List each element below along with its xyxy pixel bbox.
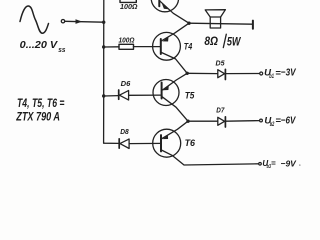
transistor T5: [153, 80, 179, 106]
source sine symbol: [20, 6, 49, 33]
T6 emitter arrow: [163, 135, 169, 139]
svg-text:100Ω: 100Ω: [119, 38, 135, 45]
svg-text:D7: D7: [216, 106, 225, 115]
input terminal: [61, 20, 64, 23]
speaker box: [210, 17, 220, 28]
label T6: [185, 138, 196, 148]
wire input: [65, 20, 104, 23]
transistor T4: [153, 32, 181, 60]
svg-text:T4, T5, T6 =: T4, T5, T6 =: [17, 98, 65, 110]
wire J1 to speaker terminal: [189, 23, 253, 24]
Q3 base bar: [158, 0, 160, 6]
label R1 100ohm: [120, 4, 138, 11]
resistor R2 100ohm: [119, 44, 134, 49]
terminal Ub3: [259, 163, 262, 166]
label D8: [120, 127, 129, 136]
diode D5: [218, 70, 225, 78]
svg-text:−3V: −3V: [281, 68, 297, 79]
transistor T6: [153, 129, 181, 157]
label Ub2 = -6V: [264, 115, 296, 128]
label D5: [216, 58, 226, 67]
node J1: [187, 22, 190, 25]
svg-text:T5: T5: [185, 91, 196, 101]
svg-text:D8: D8: [120, 127, 129, 136]
diode D8 cathode bar: [118, 139, 120, 148]
node J2: [186, 72, 189, 75]
label 0...20 Vss: [20, 39, 66, 54]
T6 emitter wire: [162, 121, 189, 139]
wire R2 to T4 base: [134, 46, 161, 48]
svg-text:D5: D5: [216, 58, 226, 67]
Q3 emitter arrow: [162, 3, 169, 9]
wire bus to D6: [104, 95, 119, 97]
terminal Ub2: [260, 119, 263, 122]
svg-text:5W: 5W: [227, 34, 242, 48]
T6 base bar: [160, 135, 162, 151]
note T4,T5,T6 = ZTX 790 A: [16, 98, 65, 124]
label 8 ohm / 5W: [204, 34, 241, 48]
node input junction: [102, 21, 105, 24]
T4 emitter arrow: [162, 37, 168, 42]
svg-text:=: =: [271, 159, 276, 168]
wire bus to R2: [104, 46, 119, 48]
svg-text:8Ω: 8Ω: [204, 34, 218, 48]
label Ub3 = -9V: [262, 158, 300, 170]
diode D7: [218, 117, 225, 125]
terminal Ub1: [260, 72, 263, 75]
slash in 8ohm/5W label: [223, 34, 226, 47]
svg-text:0...20 V: 0...20 V: [20, 39, 59, 51]
T4 emitter wire: [161, 23, 189, 41]
wire J3 to D7: [188, 120, 218, 122]
diode D6 cathode bar: [118, 90, 120, 99]
diode D6 triangle: [119, 91, 128, 101]
T4 base bar: [160, 39, 162, 54]
T5 emitter arrow: [163, 85, 169, 90]
node J3: [186, 120, 189, 123]
label R2 100ohm: [119, 38, 135, 45]
wire D6 to T5 base: [129, 94, 162, 96]
diode D8 triangle: [120, 139, 129, 149]
terminal bar right: [252, 21, 254, 29]
svg-text:D6: D6: [121, 79, 132, 88]
T5 collector wire: [162, 97, 188, 121]
wire J2 to D5: [187, 72, 217, 74]
resistor R1 100ohm top (cut off): [120, 0, 136, 2]
T5 base bar: [161, 83, 163, 99]
svg-text:T6: T6: [185, 138, 196, 148]
Q3 emitter wire: [160, 1, 189, 23]
input arrowhead: [76, 19, 83, 24]
svg-text:b1: b1: [269, 74, 274, 80]
T6 collector wire: [161, 150, 258, 165]
T5 emitter wire: [163, 73, 187, 90]
wire D7 to Ub2: [226, 120, 259, 123]
svg-text:−6V: −6V: [281, 115, 297, 126]
wire bus vertical: [103, 0, 105, 143]
svg-text:−9V: −9V: [281, 158, 298, 168]
label T4: [184, 42, 193, 53]
T4 collector wire: [161, 52, 187, 73]
speaker horn: [205, 10, 225, 17]
svg-text:ZTX 790 A: ZTX 790 A: [16, 112, 60, 124]
node R2 branch: [102, 45, 105, 48]
label T5: [185, 91, 196, 101]
wire D5 to Ub1: [226, 73, 259, 75]
label D7: [216, 106, 225, 115]
svg-text:ss: ss: [58, 47, 65, 54]
node D6 branch: [102, 94, 105, 97]
label Ub1 = -3V: [264, 68, 297, 80]
label D6: [121, 79, 132, 88]
transistor Q3 top (partially visible): [151, 0, 178, 12]
wire D8 to T6 base: [129, 142, 161, 144]
svg-text:100Ω: 100Ω: [120, 4, 138, 11]
svg-text:b2: b2: [270, 122, 275, 128]
svg-text:T4: T4: [184, 42, 193, 53]
wire bus corner to D8: [104, 142, 119, 145]
